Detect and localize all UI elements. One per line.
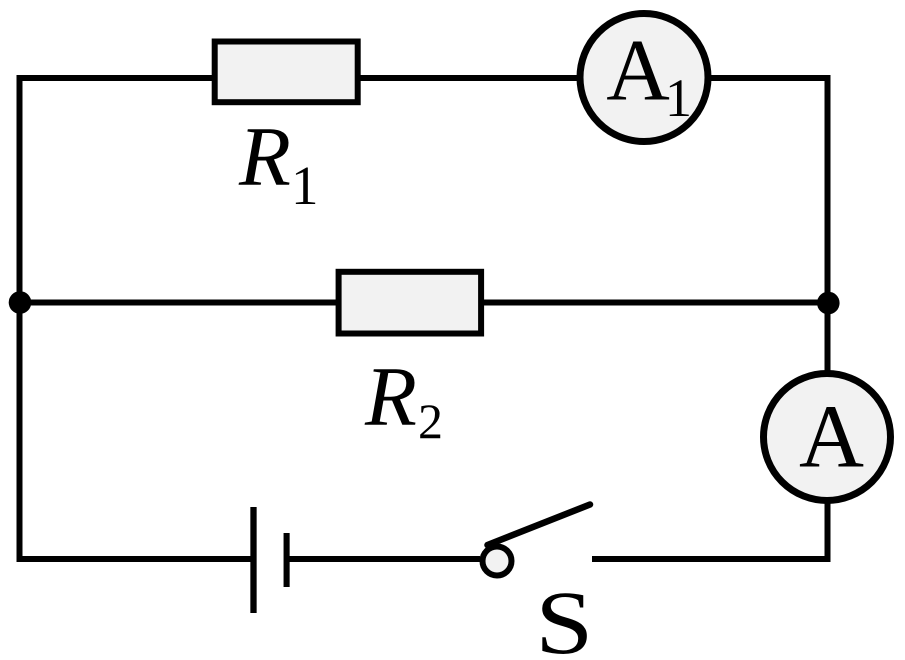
wire top-left horizontal <box>17 75 214 81</box>
svg-text:A: A <box>799 388 864 487</box>
battery short plate <box>284 533 290 587</box>
resistor R2 <box>339 272 482 334</box>
wire R1 to A1 <box>359 75 582 81</box>
svg-text:1: 1 <box>291 155 319 216</box>
ammeter A <box>764 374 891 501</box>
switch pivot <box>483 547 512 576</box>
switch blade <box>488 505 591 546</box>
node right junction <box>817 292 840 315</box>
wire right vertical upper <box>825 75 831 374</box>
wire below ammeter A <box>825 500 831 562</box>
wire middle-left horizontal <box>20 300 338 306</box>
wire battery to switch <box>287 556 480 562</box>
svg-text:2: 2 <box>418 393 443 449</box>
svg-text:S: S <box>535 574 593 660</box>
battery long plate <box>250 507 256 613</box>
svg-text:1: 1 <box>665 68 692 128</box>
wire A1 to top-right corner <box>707 75 831 81</box>
svg-text:R: R <box>238 110 291 204</box>
node left junction <box>9 291 32 314</box>
wire R2 to right node <box>482 300 828 306</box>
svg-text:R: R <box>364 350 417 444</box>
wire bottom-left horizontal <box>17 556 251 562</box>
wire bottom-right horizontal <box>592 556 831 562</box>
resistor R1 <box>215 42 358 103</box>
ammeter A1 <box>580 14 708 142</box>
wire left vertical <box>17 75 23 562</box>
svg-text:A: A <box>606 22 670 119</box>
